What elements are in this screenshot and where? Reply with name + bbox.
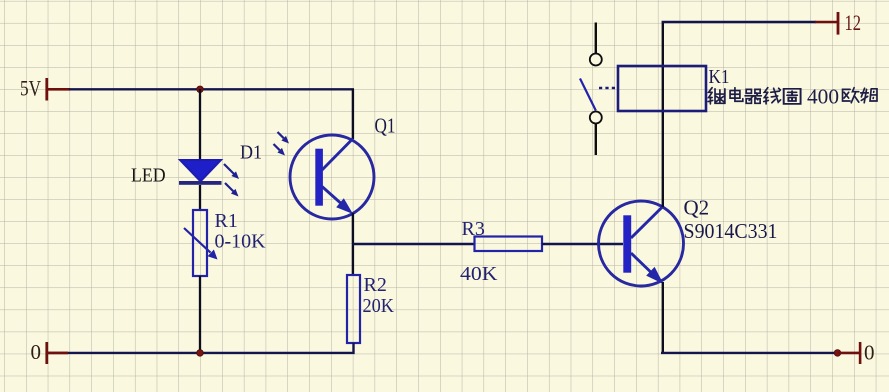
- transistor Q1 circle: [290, 135, 374, 219]
- wire Q2 emitter down to right ground rail: [662, 282, 664, 353]
- wire top rail to 12V port: [662, 21, 816, 23]
- wire R1 bottom pin: [199, 276, 201, 353]
- svg-text:5V: 5V: [20, 76, 41, 101]
- transistor Q2 circle: [599, 201, 684, 286]
- resistor R1 body: [193, 210, 207, 276]
- svg-text:20K: 20K: [363, 295, 395, 317]
- svg-text:12: 12: [845, 10, 862, 35]
- wire base net Q1 emitter to R3: [353, 243, 475, 245]
- LED D1 cathode bar: [179, 181, 222, 185]
- glyph ou: [843, 88, 859, 103]
- LED D1 diode triangle: [181, 160, 221, 181]
- wire 5V rail: [69, 88, 354, 90]
- transistor Q1 collector line: [322, 139, 353, 171]
- relay contact bottom pin: [595, 124, 597, 155]
- svg-text:0-10K: 0-10K: [215, 230, 267, 252]
- svg-text:K1: K1: [709, 66, 730, 88]
- svg-text:D1: D1: [240, 143, 262, 164]
- svg-text:0: 0: [31, 340, 42, 364]
- svg-text:R3: R3: [462, 218, 485, 240]
- LED D1 emission arrow 2: [225, 183, 239, 197]
- glyph ji: [708, 88, 725, 104]
- glyph quan: [784, 89, 801, 104]
- svg-text:S9014C331: S9014C331: [684, 219, 778, 243]
- resistor R3 body: [475, 237, 543, 252]
- node junction dot on 5V rail: [197, 86, 204, 93]
- svg-text:40K: 40K: [460, 263, 498, 285]
- svg-text:Q2: Q2: [684, 196, 710, 220]
- relay contact link dots: [599, 87, 616, 89]
- relay contact top circle: [590, 54, 602, 66]
- node junction dot right ground: [834, 350, 841, 357]
- wire R3 to Q2 base: [542, 243, 623, 245]
- wire R2 bottom pin to ground rail: [46, 343, 354, 353]
- svg-text:LED: LED: [131, 165, 166, 186]
- port 12 terminal bar: [815, 12, 839, 35]
- transistor Q1 emitter line with arrow: [322, 187, 353, 215]
- glyph mu: [861, 88, 877, 103]
- Q1 light input arrow 2: [274, 144, 286, 156]
- Q1 light input arrow 1: [278, 132, 290, 144]
- node junction dot on left ground rail: [197, 350, 204, 357]
- port 0 right terminal bar: [838, 342, 861, 364]
- port 5V terminal bar: [45, 78, 70, 101]
- transistor Q2 collector line: [631, 207, 663, 239]
- glyph dian: [730, 88, 743, 102]
- transistor Q2 emitter line with arrow: [631, 253, 664, 284]
- svg-text:400: 400: [807, 85, 839, 109]
- relay K1 coil box: [618, 66, 706, 111]
- relay contact bottom circle: [590, 112, 602, 124]
- glyph qi: [745, 89, 761, 103]
- transistor Q2 base bar: [623, 215, 631, 272]
- wire right ground rail: [661, 352, 838, 354]
- LED D1 emission arrow 1: [224, 164, 239, 179]
- resistor R2 body: [347, 275, 360, 343]
- label relay description Chinese glyphs: [708, 88, 877, 104]
- resistor R1 adjustment arrow: [184, 228, 218, 260]
- port 0 left terminal bar: [45, 342, 68, 364]
- svg-text:Q1: Q1: [375, 114, 396, 138]
- wire Q1 emitter down to node: [352, 213, 354, 276]
- transistor Q1 base bar: [315, 149, 323, 206]
- svg-text:0: 0: [864, 340, 875, 364]
- svg-text:R2: R2: [364, 274, 387, 296]
- relay contact top pin: [595, 23, 597, 55]
- relay contact lever: [580, 79, 596, 111]
- glyph xian: [764, 88, 781, 104]
- wire Q1 collector drop from 5V rail: [352, 89, 354, 139]
- wire LED cathode to R1: [199, 185, 201, 211]
- wire Q2 collector up through relay coil: [662, 22, 664, 207]
- wire LED anode pin: [199, 89, 201, 160]
- svg-text:R1: R1: [215, 210, 238, 232]
